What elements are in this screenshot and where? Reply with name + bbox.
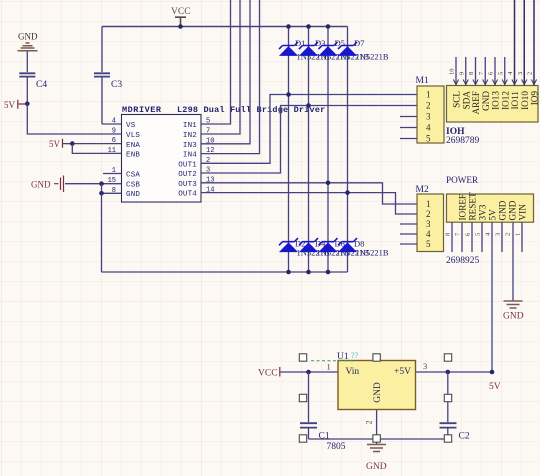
ground GND (regulator)	[366, 445, 387, 473]
svg-text:5: 5	[426, 239, 431, 249]
svg-text:2698925: 2698925	[446, 256, 480, 266]
wire/pin GND (M2 bottom pin 2)	[505, 200, 518, 300]
junction VCC tap	[178, 24, 183, 29]
op-amp U? : L298 driver IC body MDRIVER	[122, 105, 326, 202]
pin stub M2	[400, 233, 417, 235]
svg-text:SCL: SCL	[452, 91, 462, 108]
svg-text:5V: 5V	[4, 100, 16, 110]
wire pin 3 out	[416, 371, 493, 373]
svg-text:VCC: VCC	[258, 369, 278, 379]
diode D4 1N5221B (bottom row)	[299, 238, 350, 257]
wire VCC rail horizontal	[102, 26, 348, 28]
svg-text:3: 3	[423, 361, 427, 371]
svg-text:3: 3	[426, 219, 431, 229]
wire/pin AREF (M1 top pin 8)	[468, 57, 481, 115]
pin stub M2	[400, 243, 417, 245]
wire IN3 up	[201, 0, 250, 144]
pin 15 (left)	[108, 177, 116, 185]
wire OUT2 to M1 pin2	[201, 106, 417, 174]
wire VCC to Vin pin 1	[281, 371, 339, 373]
svg-text:POWER: POWER	[446, 175, 479, 185]
svg-text:VLS: VLS	[126, 132, 140, 140]
svg-text:3: 3	[517, 72, 524, 75]
svg-text:5: 5	[497, 72, 504, 75]
wire/pin RESET (M2 bottom pin 6)	[465, 192, 478, 252]
svg-text:IO10: IO10	[520, 91, 530, 110]
ground GND (right, below M2)	[503, 301, 524, 322]
svg-text:GND: GND	[508, 200, 518, 220]
pin 10 (right)	[206, 137, 214, 145]
selection handle h-mr	[444, 394, 451, 401]
svg-text:1: 1	[112, 167, 116, 175]
junction col2/VCC	[306, 24, 311, 29]
svg-text:C1: C1	[319, 432, 330, 442]
svg-text:GND: GND	[373, 382, 383, 403]
wire diode column 2	[308, 27, 310, 273]
pin 8 (left)	[112, 187, 116, 195]
wire C1 up leg	[308, 372, 310, 422]
port GND (to CSB/GND pins)	[31, 176, 64, 193]
selection handle h-tr	[444, 354, 451, 361]
wire 5V to VLS pin 9	[27, 104, 121, 134]
junction C1 tap	[306, 370, 311, 375]
regulator U1 7805	[311, 351, 427, 452]
junction GND/pin8	[99, 191, 104, 196]
wire/pin 3V3 (M2 bottom pin 5)	[475, 204, 488, 252]
svg-text:1: 1	[327, 362, 331, 372]
svg-text:IN2: IN2	[183, 132, 197, 140]
junction C4/5V/VLS	[25, 102, 30, 107]
svg-text:4: 4	[112, 118, 116, 126]
svg-text:8: 8	[112, 187, 116, 195]
svg-text:7805: 7805	[327, 442, 346, 452]
svg-text:SDA: SDA	[461, 91, 471, 110]
svg-text:2: 2	[426, 101, 431, 111]
svg-text:VCC: VCC	[171, 7, 191, 17]
junction col3/GND	[326, 270, 331, 275]
pin stub M1	[400, 116, 417, 118]
svg-text:IO11: IO11	[510, 91, 520, 110]
wire pin 2 down	[376, 410, 378, 445]
svg-text:CSA: CSA	[126, 172, 140, 180]
svg-text:3V3: 3V3	[478, 204, 488, 220]
junction col1/VCC	[286, 24, 291, 29]
svg-text:GND: GND	[503, 312, 524, 322]
wire 5V to ENA pin 6	[66, 143, 122, 145]
pin 9 (left)	[112, 128, 116, 136]
svg-text:ENA: ENA	[126, 142, 140, 150]
svg-text:+5V: +5V	[394, 367, 411, 377]
svg-text:M1: M1	[416, 76, 429, 86]
junction col2/GND	[306, 270, 311, 275]
wire/pin SDA (M1 top pin 9)	[458, 57, 471, 109]
svg-text:OUT4: OUT4	[178, 191, 197, 199]
svg-text:5: 5	[426, 134, 431, 144]
pin 5 (right)	[206, 118, 210, 126]
wire/pin IO9 (M1 top pin 2)	[527, 0, 540, 105]
wire/pin VIN (M2 bottom pin 1)	[515, 204, 528, 252]
selection handle h-tm	[373, 354, 380, 361]
svg-text:VIN: VIN	[518, 204, 528, 221]
diode D7 1N5221B (top row)	[338, 38, 389, 62]
capacitor C4	[19, 60, 47, 104]
diode D2 1N5221B (bottom row)	[279, 238, 330, 257]
wire/pin IO10 (M1 top pin 3)	[517, 0, 530, 110]
wire OUT1 to M1 pin1	[201, 95, 417, 164]
wire/pin IOREF (M2 bottom pin 7)	[455, 194, 468, 252]
svg-text:3: 3	[426, 112, 431, 122]
wire IN2 up	[201, 0, 240, 134]
wire/pin 5V (M2 bottom pin 4)	[485, 209, 498, 372]
svg-text:15: 15	[108, 177, 116, 185]
svg-text:C3: C3	[111, 80, 122, 90]
wire bottom rail C1-C2	[309, 438, 448, 440]
svg-text:GND: GND	[126, 191, 140, 199]
diode D5 1N5221B (top row)	[319, 38, 370, 62]
svg-text:5V: 5V	[489, 382, 501, 392]
selection handle h-ml	[299, 394, 306, 401]
svg-text:3: 3	[495, 233, 502, 236]
svg-text:2: 2	[426, 209, 431, 219]
pin 7 (right)	[206, 128, 210, 136]
pin stub M1	[400, 127, 417, 129]
svg-text:OUT3: OUT3	[178, 181, 197, 189]
pin 3 (right)	[206, 167, 210, 175]
svg-text:L298 Dual Full Bridge Driver: L298 Dual Full Bridge Driver	[177, 105, 325, 115]
svg-text:IO13: IO13	[491, 91, 501, 110]
wire branch to ENB pin 11	[72, 144, 121, 154]
svg-text:IN4: IN4	[183, 152, 197, 160]
svg-text:D1: D1	[295, 38, 305, 48]
svg-text:ENB: ENB	[126, 152, 140, 160]
svg-text:IO9: IO9	[530, 91, 540, 106]
junction 5V/ENA/ENB	[70, 141, 75, 146]
svg-text:2: 2	[505, 233, 512, 236]
junction col1/OUT1	[286, 92, 291, 97]
junction col4/OUT4	[345, 190, 350, 195]
svg-text:GND: GND	[481, 91, 491, 111]
wire CSA stub pin 1	[103, 173, 122, 175]
svg-text:OUT1: OUT1	[178, 161, 197, 169]
wire/pin GND (M1 top pin 7)	[478, 57, 491, 111]
selection handle h-br	[444, 435, 451, 442]
selection handle h-bm	[373, 435, 380, 442]
svg-text:GND: GND	[366, 462, 387, 472]
diode D1 1N5221B (top row)	[279, 38, 330, 62]
wire/pin IO13 (M1 top pin 6)	[488, 57, 501, 110]
wire C2 up leg	[447, 372, 449, 422]
ground GND (top-left earth symbol)	[18, 32, 38, 61]
pin 12 (right)	[206, 147, 214, 155]
net label 5V	[489, 382, 501, 392]
wire GND left rail down	[101, 193, 103, 272]
svg-text:GND: GND	[18, 32, 38, 42]
power flag VCC (top)	[171, 7, 191, 26]
svg-text:10: 10	[449, 69, 456, 76]
pin 4 (left)	[112, 118, 116, 126]
junction col3/OUT3	[326, 181, 331, 186]
svg-text:IN1: IN1	[183, 122, 197, 130]
wire/pin IO12 (M1 top pin 5)	[497, 57, 510, 110]
svg-text:AREF: AREF	[471, 91, 481, 115]
junction GND/CSB	[99, 181, 104, 186]
svg-text:IO12: IO12	[500, 91, 510, 110]
port VCC (regulator input)	[258, 367, 280, 379]
svg-text:4: 4	[426, 123, 431, 133]
pin 13 (right)	[206, 177, 214, 185]
junction C2 tap	[446, 370, 451, 375]
wire diode column 3	[327, 27, 329, 273]
svg-text:D7: D7	[354, 38, 364, 48]
svg-text:GND: GND	[31, 180, 51, 190]
capacitor C2	[440, 423, 470, 441]
pin 1 (left)	[112, 167, 116, 175]
svg-text:OUT2: OUT2	[178, 171, 197, 179]
wire diode column 4	[347, 27, 349, 273]
svg-text:5: 5	[475, 233, 482, 236]
wire C3 bottom to VS pin 4	[102, 123, 122, 125]
port 5V (left, to VLS net)	[4, 100, 28, 110]
connector M1 IOH	[416, 76, 539, 146]
svg-text:C2: C2	[459, 432, 470, 442]
svg-text:1N5221B: 1N5221B	[356, 52, 389, 62]
wire GND down to pin 8	[102, 184, 122, 194]
svg-text:2: 2	[365, 421, 374, 425]
svg-text:6: 6	[112, 137, 116, 145]
svg-text:MDRIVER: MDRIVER	[122, 105, 162, 115]
svg-text:CSB: CSB	[126, 181, 140, 189]
svg-text:VS: VS	[126, 122, 136, 130]
svg-text:8: 8	[468, 72, 475, 75]
svg-text:2: 2	[527, 72, 534, 75]
junction 5V net corner	[490, 370, 495, 375]
wire diode column 1	[288, 27, 290, 273]
wire GND to CSB pin 15	[65, 183, 122, 185]
junction col2/OUT2	[306, 103, 311, 108]
svg-text:C4: C4	[36, 80, 47, 90]
wire IN1 up	[201, 0, 231, 124]
wire GND bottom rail	[102, 271, 348, 273]
svg-text:8: 8	[445, 233, 452, 236]
svg-text:4: 4	[426, 229, 431, 239]
wire/pin nc (M2 bottom pin 8)	[445, 222, 453, 252]
junction pin2/gnd rail	[374, 437, 379, 442]
wire OUT3 to M2 pin1	[201, 183, 417, 204]
wire OUT4 to M2 pin2	[201, 193, 417, 214]
svg-text:11: 11	[108, 147, 116, 155]
diode D8 1N5221B (bottom row)	[338, 238, 389, 257]
svg-text:5V: 5V	[488, 209, 498, 221]
svg-text:1N5221B: 1N5221B	[356, 248, 389, 258]
pin 14 (right)	[206, 186, 214, 194]
svg-text:2698789: 2698789	[446, 136, 480, 146]
svg-text:IN3: IN3	[183, 142, 197, 150]
connector M2 POWER	[416, 175, 534, 266]
pin 11 (left)	[108, 147, 116, 155]
svg-text:1: 1	[515, 233, 522, 236]
svg-text:9: 9	[458, 72, 465, 75]
svg-text:Vin: Vin	[346, 367, 360, 377]
selection handle h-bl	[299, 435, 306, 442]
svg-text:GND: GND	[498, 200, 508, 220]
pin stub M2	[400, 223, 417, 225]
capacitor C1	[300, 423, 330, 441]
wire/pin GND (M2 bottom pin 3)	[495, 200, 508, 252]
junction col1/GND	[286, 270, 291, 275]
svg-text:IOREF: IOREF	[458, 194, 468, 221]
capacitor C3	[94, 27, 122, 125]
diode D3 1N5221B (top row)	[299, 38, 350, 62]
pin stub M1	[400, 138, 417, 140]
wire IN4 up	[201, 0, 260, 154]
junction col3/VCC	[326, 24, 331, 29]
diode D6 1N5221B (bottom row)	[319, 238, 370, 257]
svg-text:9: 9	[112, 128, 116, 136]
pin 6 (left)	[112, 137, 116, 145]
selection handle h-tl	[299, 354, 306, 361]
svg-text:1: 1	[426, 199, 431, 209]
wire/pin IO11 (M1 top pin 4)	[507, 0, 520, 110]
wire/pin SCL (M1 top pin 10)	[449, 57, 462, 108]
port 5V (to ENA/ENB)	[49, 139, 69, 149]
pin 2 (right)	[206, 157, 210, 165]
svg-text:5V: 5V	[49, 139, 61, 149]
svg-text:??: ??	[351, 351, 359, 360]
svg-text:RESET: RESET	[468, 192, 478, 220]
svg-text:1: 1	[426, 90, 431, 100]
